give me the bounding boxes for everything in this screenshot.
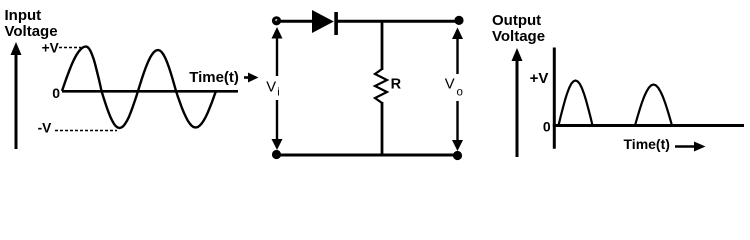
dashed leader from -V to first trough xyxy=(55,130,117,132)
node top-left xyxy=(272,16,281,25)
svg-text:Output: Output xyxy=(492,12,541,29)
node bottom-right xyxy=(453,151,462,160)
svg-text:+V: +V xyxy=(42,41,60,56)
svg-text:V: V xyxy=(445,77,455,93)
output half-wave hump 2 xyxy=(635,85,672,126)
svg-text:Voltage: Voltage xyxy=(5,23,58,40)
svg-text:Input: Input xyxy=(5,7,42,24)
output half-wave hump 1 xyxy=(559,81,593,126)
wire: top-left node to diode anode xyxy=(277,20,313,23)
dashed leader from +V to first peak xyxy=(59,47,81,49)
output graph y-axis xyxy=(553,48,556,149)
svg-text:+V: +V xyxy=(530,70,549,87)
diode D1 (anode triangle and cathode bar) xyxy=(312,10,338,35)
arrow after Time(t) (input) xyxy=(244,73,259,83)
svg-text:-V: -V xyxy=(38,120,53,135)
resistor R (zigzag) xyxy=(375,69,387,103)
svg-text:Time(t): Time(t) xyxy=(189,69,239,86)
bottom wire xyxy=(277,154,460,157)
Vo double-headed arrow upper part xyxy=(452,28,463,75)
Vi double-headed arrow lower part xyxy=(272,100,283,150)
arrow after Time(t) (output) xyxy=(675,142,706,152)
output graph time axis xyxy=(553,124,744,127)
node top-right xyxy=(454,16,463,25)
label Vo xyxy=(445,77,463,99)
svg-text:Voltage: Voltage xyxy=(492,28,545,45)
Vo double-headed arrow lower part xyxy=(452,101,463,151)
wire: top junction down to resistor xyxy=(381,21,384,70)
svg-text:V: V xyxy=(266,80,276,96)
wire: resistor to bottom wire xyxy=(381,102,384,155)
output voltage axis vertical arrow xyxy=(512,48,523,157)
wire: diode cathode to top-right node xyxy=(337,20,459,23)
input sine wave xyxy=(62,47,216,129)
svg-text:o: o xyxy=(457,86,463,98)
input time axis xyxy=(62,90,238,93)
svg-text:0: 0 xyxy=(52,85,60,101)
node bottom-left xyxy=(272,150,281,159)
input voltage axis vertical arrow xyxy=(11,42,22,149)
svg-text:Time(t): Time(t) xyxy=(624,136,670,152)
svg-text:0: 0 xyxy=(543,118,551,134)
label Vi xyxy=(266,80,279,99)
svg-text:i: i xyxy=(277,87,279,99)
svg-text:R: R xyxy=(391,76,402,92)
Vi double-headed arrow upper part xyxy=(272,27,283,76)
